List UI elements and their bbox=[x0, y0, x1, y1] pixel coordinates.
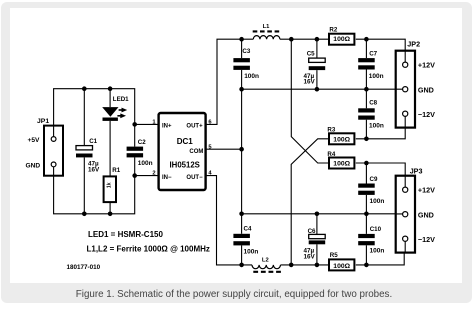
node C3 top bbox=[239, 37, 244, 42]
node C4 top bbox=[239, 212, 244, 217]
svg-text:+12V: +12V bbox=[418, 61, 435, 70]
capacitor C7 bbox=[358, 51, 383, 81]
connector JP3 bbox=[396, 167, 435, 253]
node R1 bottom bbox=[108, 212, 113, 217]
svg-text:100n: 100n bbox=[369, 73, 384, 80]
svg-text:LED1 = HSMR-C150: LED1 = HSMR-C150 bbox=[88, 230, 163, 239]
svg-text:C2: C2 bbox=[138, 139, 146, 146]
resistor R5 bbox=[329, 252, 354, 270]
svg-text:+12V: +12V bbox=[418, 186, 435, 195]
node C7 top bbox=[364, 37, 369, 42]
svg-text:GND: GND bbox=[26, 162, 41, 169]
wire C1 branch bottom bbox=[83, 157, 85, 213]
node L2 right bbox=[289, 263, 294, 268]
capacitor C2 bbox=[127, 139, 153, 167]
wire LED branch top bbox=[109, 89, 111, 107]
capacitor C1 bbox=[76, 138, 100, 173]
capacitor C6 bbox=[304, 228, 326, 260]
svg-text:1k: 1k bbox=[106, 182, 112, 188]
wire C3 bottom lead bbox=[241, 70, 243, 89]
svg-text:C5: C5 bbox=[307, 51, 315, 58]
svg-text:C1: C1 bbox=[89, 138, 97, 145]
svg-text:100Ω: 100Ω bbox=[333, 161, 350, 168]
svg-text:−12V: −12V bbox=[418, 110, 435, 119]
svg-text:C10: C10 bbox=[370, 226, 382, 233]
svg-text:C8: C8 bbox=[369, 100, 377, 107]
node IN- bbox=[132, 173, 137, 178]
DC-DC converter DC1 bbox=[152, 113, 212, 190]
svg-text:LED1: LED1 bbox=[113, 96, 129, 103]
wire C9 leads bbox=[365, 163, 367, 214]
svg-text:100n: 100n bbox=[370, 248, 385, 255]
svg-text:JP2: JP2 bbox=[407, 39, 420, 48]
svg-text:OUT−: OUT− bbox=[186, 175, 203, 181]
svg-text:2: 2 bbox=[152, 171, 155, 177]
wire bottom rail L2 to R5 bbox=[281, 264, 329, 266]
wire C2 top lead bbox=[134, 124, 136, 146]
svg-text:100n: 100n bbox=[370, 198, 385, 205]
node C6 top bbox=[315, 212, 320, 217]
node R3 out bbox=[364, 137, 369, 142]
svg-text:C9: C9 bbox=[370, 176, 378, 183]
svg-text:IN+: IN+ bbox=[162, 124, 172, 130]
caption bbox=[0, 289, 471, 300]
svg-text:L1,L2 = Ferrite 1000Ω @ 100MHz: L1,L2 = Ferrite 1000Ω @ 100MHz bbox=[87, 244, 210, 253]
wire C8 bottom lead bbox=[365, 120, 367, 139]
wire C7 leads bbox=[365, 39, 367, 89]
wire C8 top lead bbox=[365, 89, 367, 108]
wire OUT+ riser to top rail bbox=[206, 39, 254, 124]
capacitor C9 bbox=[358, 176, 384, 205]
connector JP2 bbox=[396, 39, 435, 127]
inductor L2 bbox=[252, 258, 281, 272]
node C7 bottom bbox=[364, 87, 369, 92]
svg-text:16V: 16V bbox=[88, 166, 100, 173]
svg-text:100Ω: 100Ω bbox=[333, 137, 350, 144]
capacitor C3 bbox=[233, 48, 259, 80]
capacitor C8 bbox=[358, 100, 384, 130]
svg-text:C7: C7 bbox=[369, 51, 377, 58]
resistor R2 bbox=[329, 26, 354, 44]
svg-text:IH0512S: IH0512S bbox=[170, 160, 200, 169]
svg-text:JP3: JP3 bbox=[410, 167, 423, 176]
node C5 top bbox=[315, 37, 320, 42]
wire GND bottom rail bbox=[242, 213, 402, 215]
LED LED1 bbox=[102, 96, 129, 121]
svg-text:GND: GND bbox=[418, 211, 434, 220]
wire C6 leads bbox=[316, 214, 318, 265]
svg-text:R5: R5 bbox=[330, 252, 338, 259]
svg-text:L2: L2 bbox=[262, 258, 269, 264]
svg-text:IN−: IN− bbox=[162, 175, 172, 181]
svg-text:−12V: −12V bbox=[418, 235, 435, 244]
svg-text:OUT+: OUT+ bbox=[186, 124, 203, 130]
wire upper X riser to R4 bbox=[291, 39, 329, 163]
wire GND top rail bbox=[242, 88, 402, 90]
connector JP1 bbox=[26, 118, 64, 176]
wire LED cathode to R1 bbox=[109, 121, 111, 176]
node C6 bottom bbox=[315, 263, 320, 268]
svg-text:DC1: DC1 bbox=[177, 137, 194, 146]
svg-text:COM: COM bbox=[189, 149, 203, 155]
resistor R3 bbox=[327, 127, 354, 145]
node R4 out bbox=[364, 161, 369, 166]
wire OUT- riser bbox=[206, 176, 252, 265]
svg-text:C3: C3 bbox=[242, 48, 250, 55]
node C10 bottom bbox=[364, 263, 369, 268]
svg-text:100Ω: 100Ω bbox=[333, 36, 350, 43]
capacitor C5 bbox=[304, 51, 326, 86]
svg-text:16V: 16V bbox=[304, 79, 316, 86]
svg-text:100n: 100n bbox=[244, 73, 259, 80]
node C1 bottom bbox=[82, 212, 87, 217]
wire C2 bottom lead bbox=[134, 157, 136, 175]
svg-text:C4: C4 bbox=[244, 225, 252, 232]
svg-text:C6: C6 bbox=[308, 228, 316, 235]
wire C4 leads bbox=[241, 214, 243, 265]
wire COM bbox=[206, 148, 242, 150]
svg-text:R2: R2 bbox=[329, 26, 337, 33]
node C3 bottom bbox=[239, 87, 244, 92]
wire +5V riser and top-left rail bbox=[54, 89, 159, 136]
capacitor C4 bbox=[233, 225, 258, 255]
wire C1 branch top bbox=[83, 89, 85, 146]
wire R2 to JP2 +12V bbox=[356, 39, 405, 61]
node LED top bbox=[108, 86, 113, 91]
wire R5 to JP3 -12V bbox=[356, 242, 404, 265]
wire GND spine bbox=[241, 89, 243, 214]
wire lower X riser to R3 bbox=[291, 139, 329, 265]
svg-text:180177-010: 180177-010 bbox=[67, 264, 101, 271]
wire R1 bottom bbox=[109, 202, 111, 214]
svg-text:100n: 100n bbox=[138, 160, 153, 167]
node C9 bottom bbox=[364, 212, 369, 217]
node C4 bottom bbox=[239, 263, 244, 268]
node IN+ bbox=[132, 122, 137, 127]
resistor R1 bbox=[104, 167, 121, 202]
svg-text:100n: 100n bbox=[369, 122, 384, 129]
wire C3 top lead bbox=[241, 39, 243, 58]
wire R4 to JP3 +12V bbox=[356, 163, 405, 187]
svg-text:JP1: JP1 bbox=[37, 118, 49, 125]
wire R3 to JP2 -12V bbox=[356, 117, 405, 139]
inductor L1 bbox=[253, 24, 280, 39]
wire C10 leads bbox=[365, 214, 367, 265]
svg-text:R1: R1 bbox=[112, 167, 120, 174]
svg-text:100Ω: 100Ω bbox=[333, 263, 350, 270]
node L1 right bbox=[289, 37, 294, 42]
svg-text:+5V: +5V bbox=[28, 137, 41, 144]
svg-text:R3: R3 bbox=[327, 127, 335, 134]
capacitor C10 bbox=[358, 226, 384, 255]
svg-text:16V: 16V bbox=[304, 254, 316, 261]
wire GND bottom-left rail bbox=[54, 168, 159, 214]
node C5 bottom bbox=[315, 87, 320, 92]
svg-text:100n: 100n bbox=[244, 248, 259, 255]
svg-text:GND: GND bbox=[418, 86, 434, 95]
svg-text:R4: R4 bbox=[327, 151, 335, 158]
wire C5 leads bbox=[316, 39, 318, 89]
resistor R4 bbox=[327, 151, 354, 169]
node C1 top bbox=[82, 86, 87, 91]
wire top rail L1 to R2 bbox=[280, 38, 329, 40]
svg-text:L1: L1 bbox=[263, 24, 271, 30]
node COM bbox=[239, 147, 244, 152]
